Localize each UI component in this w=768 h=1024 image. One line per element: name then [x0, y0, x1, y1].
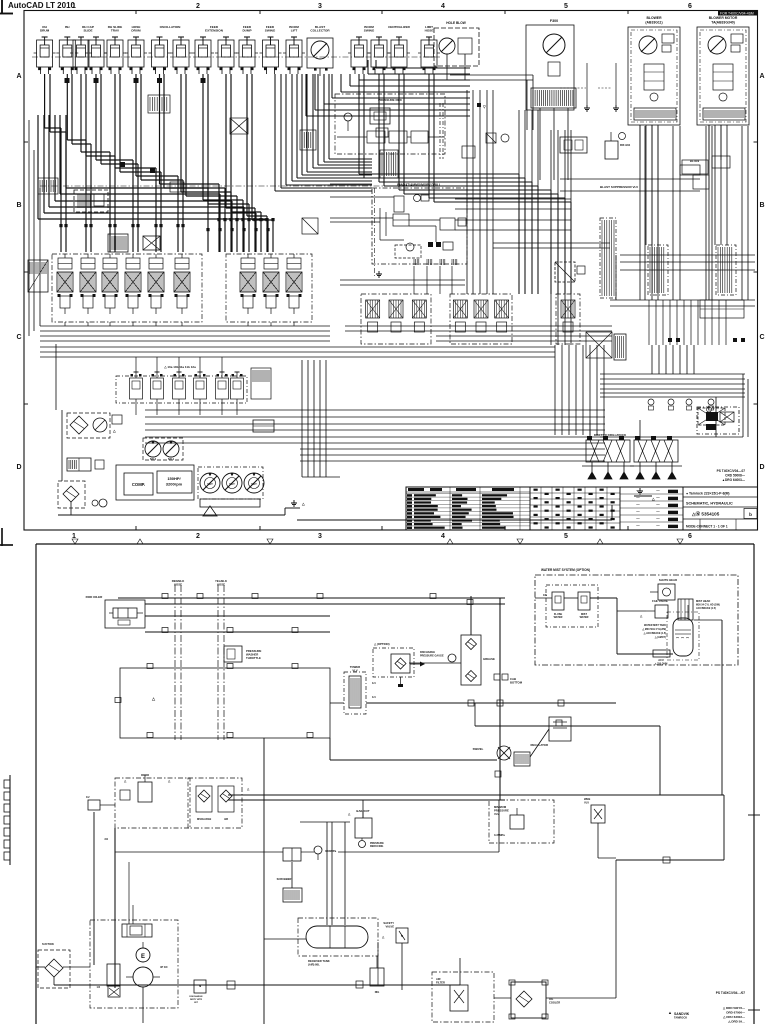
svg-text:△ ACC/BRAKE (1.5): △ ACC/BRAKE (1.5) [643, 632, 667, 635]
svg-text:NO.2: NO.2 [150, 457, 157, 461]
svg-text:PRESSURE GAUGE: PRESSURE GAUGE [420, 655, 444, 658]
svg-text:TAMROCK: TAMROCK [674, 1016, 687, 1020]
svg-text:WATER: WATER [554, 616, 563, 619]
svg-text:HOSE: HOSE [425, 29, 434, 33]
svg-text:△Ⓝ 5354105: △Ⓝ 5354105 [691, 511, 720, 518]
svg-text:PRESSURE: PRESSURE [494, 809, 509, 813]
svg-text:△ 250 OHM: △ 250 OHM [654, 663, 668, 666]
svg-text:1/2: 1/2 [86, 796, 90, 799]
svg-text:HOSE: HOSE [174, 583, 182, 587]
svg-text:THROTTLE: THROTTLE [246, 656, 261, 660]
svg-text:AIR: AIR [224, 818, 228, 821]
svg-text:EXTENSION: EXTENSION [205, 29, 224, 33]
svg-text:RIF-904: RIF-904 [620, 143, 631, 147]
svg-text:△: △ [167, 779, 171, 783]
svg-text:MINIMUM: MINIMUM [494, 805, 507, 809]
svg-text:REDUCING: REDUCING [370, 845, 383, 848]
svg-text:MODE-CONNECT 1 · 1 OF 1: MODE-CONNECT 1 · 1 OF 1 [686, 525, 728, 529]
svg-text:ACC/BRAKE (1.5): ACC/BRAKE (1.5) [696, 607, 716, 610]
svg-text:DRUM: DRUM [131, 29, 141, 33]
svg-text:5: 5 [564, 533, 568, 540]
svg-text:MOT: MOT [251, 483, 257, 486]
svg-text:DIRTY WTR: DIRTY WTR [190, 999, 203, 1001]
svg-text:FILTER: FILTER [436, 981, 445, 985]
svg-text:DISCHARGE: DISCHARGE [197, 818, 212, 821]
svg-text:b: b [749, 512, 752, 517]
svg-text:TA(AB33G340): TA(AB33G340) [711, 21, 735, 25]
svg-text:CRD 50008—: CRD 50008— [725, 474, 746, 478]
svg-text:△ (AMOY): △ (AMOY) [654, 636, 666, 639]
svg-text:VLV: VLV [494, 812, 499, 816]
svg-text:DRIFTER DRILL/ROCK: DRIFTER DRILL/ROCK [594, 433, 627, 437]
svg-text:SLIDE: SLIDE [83, 29, 92, 33]
svg-text:1/N: 1/N [543, 594, 547, 597]
svg-text:MIST HEAD: MIST HEAD [696, 599, 710, 603]
svg-text:A: A [16, 73, 21, 80]
svg-text:1/4: 1/4 [372, 695, 376, 699]
svg-text:HOLE BLOW: HOLE BLOW [446, 21, 465, 25]
svg-text:▲: ▲ [668, 1010, 672, 1015]
svg-text:△: △ [246, 787, 250, 791]
svg-text:E: E [141, 954, 145, 960]
svg-text:N: N [401, 934, 403, 938]
svg-text:DRD 67006—: DRD 67006— [726, 1011, 745, 1015]
svg-text:△: △ [381, 935, 385, 939]
svg-text:SANDVIK: SANDVIK [674, 1012, 690, 1016]
svg-text:● Tamrock 223×15/1-P-8(M): ● Tamrock 223×15/1-P-8(M) [686, 492, 730, 496]
svg-text:SCRUBBER: SCRUBBER [277, 877, 292, 881]
svg-text:LIFT: LIFT [291, 29, 298, 33]
svg-text:PRESSURE RED: PRESSURE RED [378, 98, 403, 102]
svg-text:BLOWER: BLOWER [646, 16, 662, 20]
svg-text:BL-9C9: BL-9C9 [690, 159, 700, 163]
svg-text:BMA/AT/AMMO/MORV DRILL: BMA/AT/AMMO/MORV DRILL [397, 183, 441, 187]
svg-text:NO.1: NO.1 [168, 457, 175, 461]
svg-text:3/4: 3/4 [104, 837, 108, 841]
svg-text:ROD OILER: ROD OILER [86, 595, 104, 599]
svg-text:1: 1 [72, 3, 76, 10]
svg-text:SAFETY: SAFETY [383, 921, 394, 925]
svg-text:3: 3 [318, 3, 322, 10]
svg-text:DRUM: DRUM [40, 29, 50, 33]
svg-text:TRAV: TRAV [111, 29, 120, 33]
svg-text:WATER MIST SYSTEM (OPTION): WATER MIST SYSTEM (OPTION) [541, 568, 590, 572]
svg-text:SHUTE HEAD: SHUTE HEAD [659, 578, 677, 582]
svg-text:4: 4 [441, 3, 445, 10]
svg-text:△ DRD 590Y6—: △ DRD 590Y6— [722, 1006, 745, 1010]
svg-text:SUCTION: SUCTION [42, 942, 54, 946]
svg-text:6: 6 [688, 533, 692, 540]
svg-text:2: 2 [196, 3, 200, 10]
svg-text:OSCILLATION: OSCILLATION [160, 25, 182, 29]
svg-text:COLLECTOR: COLLECTOR [310, 29, 330, 33]
svg-text:150HP/: 150HP/ [167, 476, 181, 481]
svg-text:CENTRALIZER: CENTRALIZER [388, 25, 411, 29]
svg-text:A: A [759, 73, 764, 80]
svg-text:△ DRD 59…: △ DRD 59… [727, 1020, 745, 1024]
svg-text:△ (OPTION): △ (OPTION) [373, 642, 390, 646]
svg-text:1/4: 1/4 [372, 681, 376, 685]
svg-text:BOTTOM: BOTTOM [510, 681, 523, 685]
svg-text:1/4: 1/4 [97, 986, 101, 989]
svg-text:4P 4/0: 4P 4/0 [160, 965, 168, 969]
svg-text:SWIVEL: SWIVEL [473, 747, 484, 751]
svg-text:MOT: MOT [207, 483, 213, 486]
svg-text:WATER: WATER [580, 616, 589, 619]
svg-text:PS T40XC/V04…/07: PS T40XC/V04…/07 [716, 991, 745, 995]
svg-text:D: D [16, 464, 21, 471]
svg-text:BLOWER MOTOR: BLOWER MOTOR [709, 16, 738, 20]
svg-text:2: 2 [196, 533, 200, 540]
svg-text:COOLER: COOLER [549, 1001, 560, 1005]
svg-text:VLV: VLV [584, 801, 589, 805]
svg-text:△: △ [123, 779, 127, 783]
svg-text:SWING: SWING [364, 29, 375, 33]
svg-text:PS T40XC/V04—07: PS T40XC/V04—07 [717, 469, 746, 473]
svg-text:△ DRU 63002—: △ DRU 63002— [722, 1015, 745, 1019]
svg-text:△ 10a 10b 11a 11b 12a: △ 10a 10b 11a 11b 12a [163, 365, 196, 369]
svg-text:4: 4 [441, 533, 445, 540]
svg-text:HOSE: HOSE [217, 583, 225, 587]
svg-text:0.35MPa: 0.35MPa [494, 833, 505, 837]
svg-text:BH: BH [65, 25, 70, 29]
svg-text:F300: F300 [550, 19, 558, 23]
svg-text:C: C [16, 334, 21, 341]
svg-text:B: B [16, 202, 21, 209]
svg-text:WEB: WEB [584, 797, 590, 801]
svg-text:DISCHARGE: DISCHARGE [189, 995, 203, 998]
svg-text:3: 3 [318, 533, 322, 540]
svg-text:COMP.: COMP. [132, 482, 145, 487]
svg-text:BLAST SUPPRESSOR VLV: BLAST SUPPRESSOR VLV [600, 185, 638, 189]
svg-text:5: 5 [564, 3, 568, 10]
svg-text:6: 6 [688, 3, 692, 10]
svg-text:C: C [759, 334, 764, 341]
svg-text:JET: JET [194, 1002, 199, 1004]
svg-text:VALVE: VALVE [385, 925, 394, 929]
svg-text:RECEIVER TANK: RECEIVER TANK [308, 959, 330, 963]
svg-text:GREASE: GREASE [483, 657, 495, 661]
svg-text:AutoCAD LT 2010: AutoCAD LT 2010 [8, 1, 76, 10]
svg-text:▲DRO 64003—: ▲DRO 64003— [722, 478, 746, 482]
svg-text:WATER MIST TANK: WATER MIST TANK [644, 624, 666, 627]
svg-text:AIR: AIR [436, 977, 441, 981]
svg-text:(AIR) 80L: (AIR) 80L [308, 963, 320, 967]
svg-text:3200rpm: 3200rpm [166, 482, 183, 487]
svg-text:D: D [759, 464, 764, 471]
svg-text:(AB33G11): (AB33G11) [645, 21, 662, 25]
svg-text:B: B [759, 202, 764, 209]
svg-text:SCHEMATIC, HYDRAULIC: SCHEMATIC, HYDRAULIC [686, 502, 733, 506]
svg-text:△ M30 5CH CYL(2/M): △ M30 5CH CYL(2/M) [641, 628, 666, 631]
svg-text:DUMP: DUMP [242, 29, 251, 33]
svg-text:MOT: MOT [229, 483, 235, 486]
svg-text:RIG: RIG [375, 990, 380, 994]
svg-text:SWING: SWING [265, 29, 276, 33]
svg-text:FAIL VALVE: FAIL VALVE [652, 599, 668, 603]
